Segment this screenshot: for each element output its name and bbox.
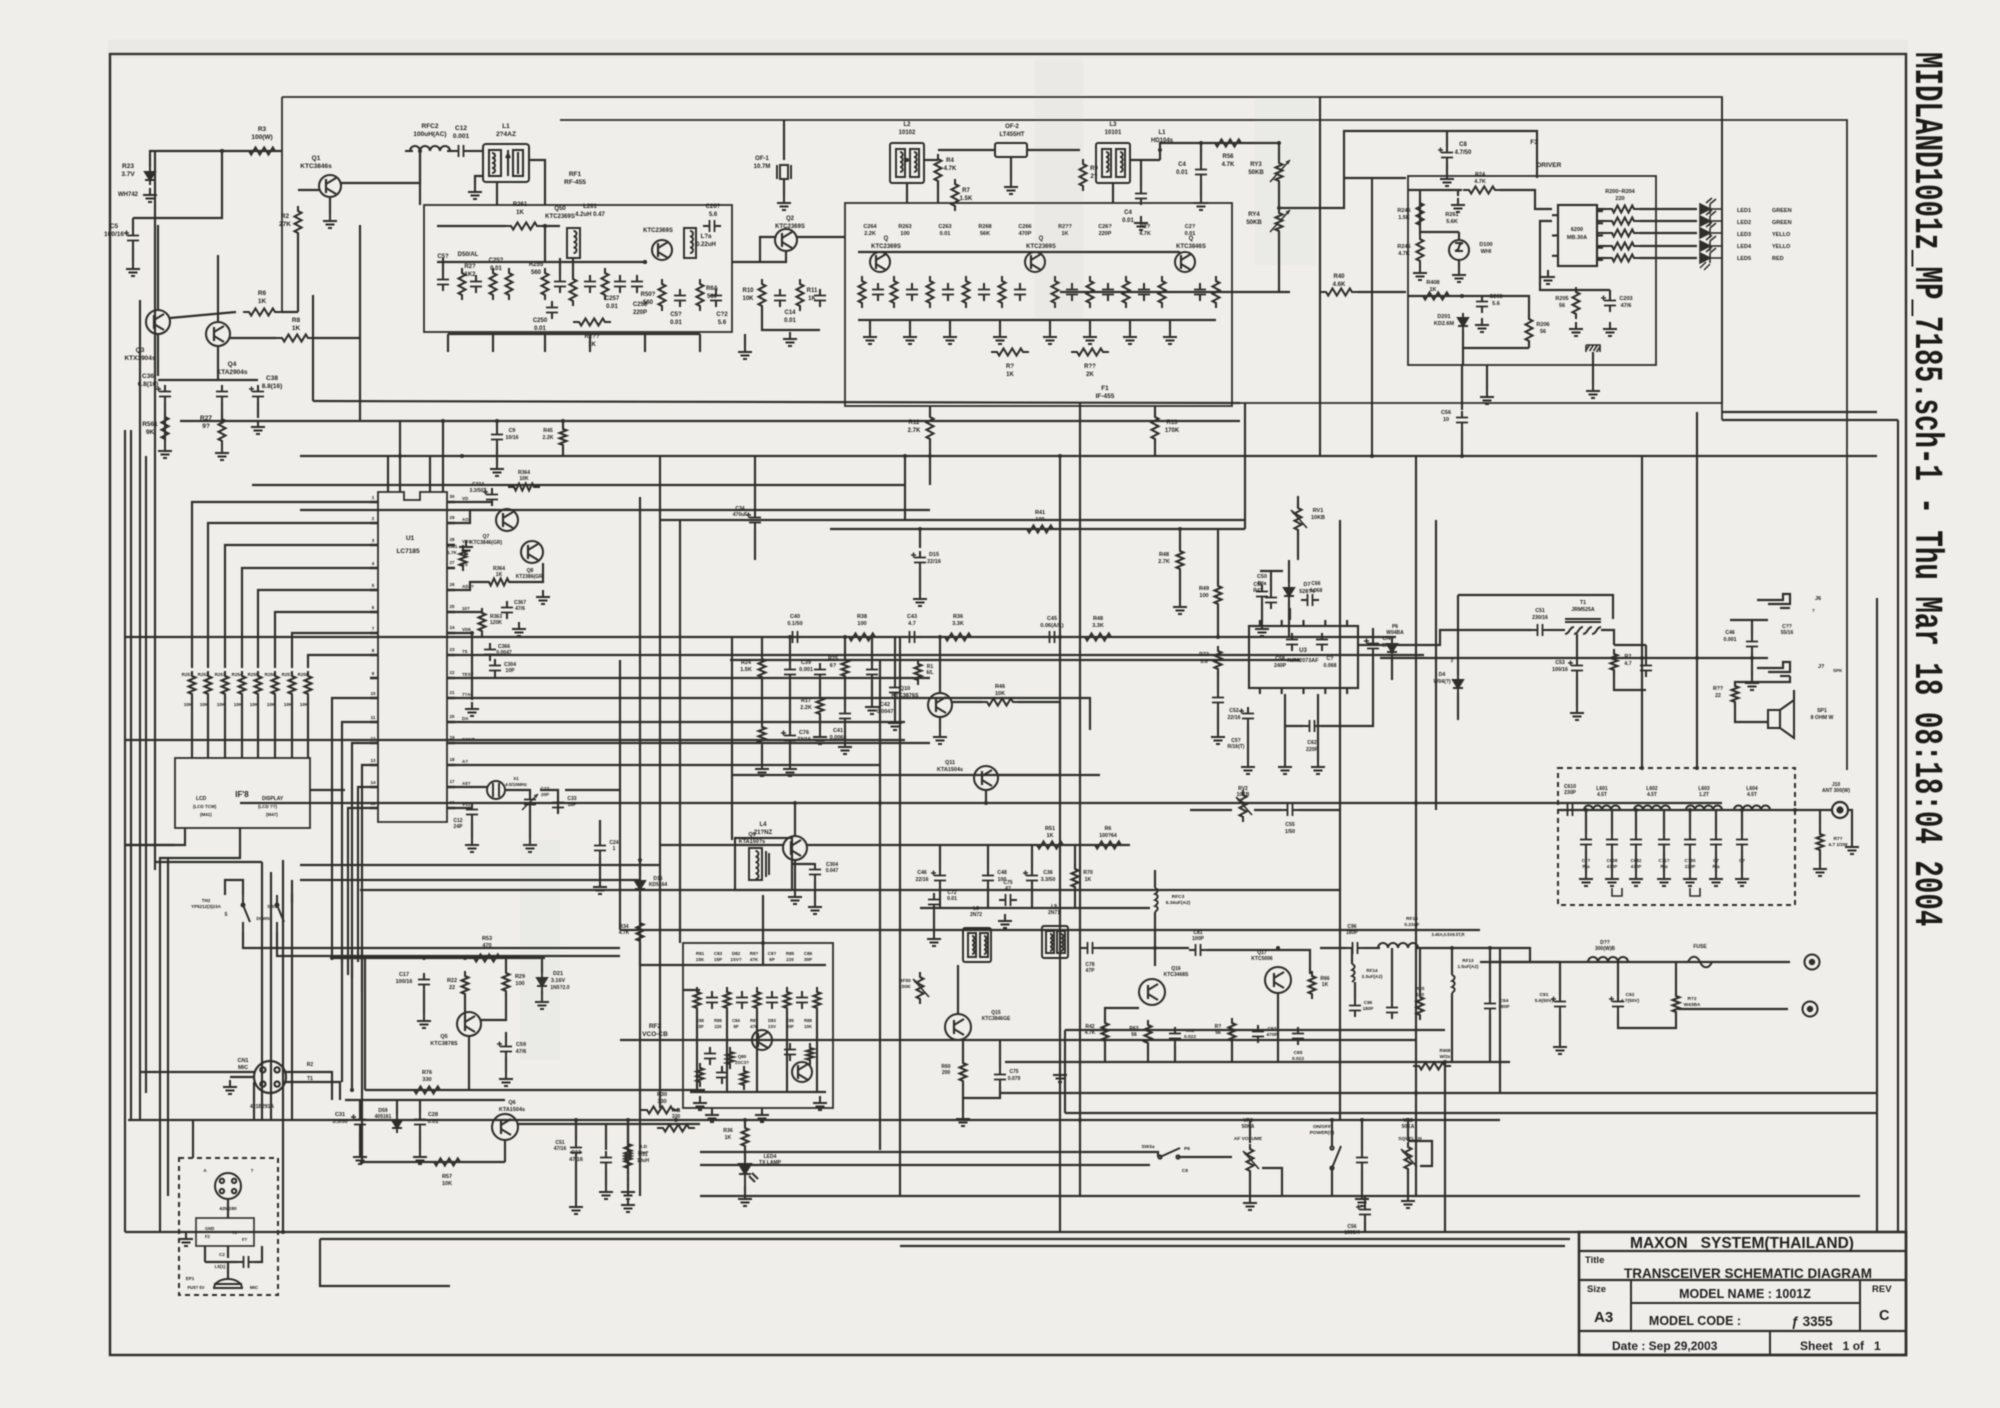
transistor Q6 <box>492 1114 518 1140</box>
ground C31 <box>353 1150 367 1164</box>
svg-text:Q9: Q9 <box>748 832 755 838</box>
svg-text:10e?: 10e? <box>638 1150 649 1156</box>
svg-text:KTA1504s: KTA1504s <box>499 1107 525 1113</box>
wire <box>1601 630 1614 645</box>
capacitor C97 <box>1386 1001 1398 1019</box>
label R45 value <box>543 428 554 441</box>
resistor F1 <box>891 276 898 308</box>
svg-text:0.01: 0.01 <box>1185 231 1196 237</box>
wire <box>1452 295 1482 297</box>
potentiometer RF50 <box>917 972 924 1004</box>
wire v930b <box>929 456 931 485</box>
wire <box>205 1261 237 1263</box>
wire <box>1099 947 1189 949</box>
wire C5 top <box>132 218 134 229</box>
capacitor C255 <box>614 275 626 293</box>
wire switch top <box>225 880 243 895</box>
svg-text:22/16: 22/16 <box>1228 715 1241 721</box>
svg-text:C40: C40 <box>790 614 800 620</box>
diode D4 <box>1453 675 1463 693</box>
wire <box>541 958 543 973</box>
ground F3 a <box>1451 198 1465 212</box>
label label <box>1176 162 1188 176</box>
svg-text:C42: C42 <box>880 702 890 708</box>
label label <box>633 302 648 316</box>
capacitor C56 <box>1456 411 1468 429</box>
ground vco b <box>755 1108 769 1122</box>
wire <box>1154 406 1156 417</box>
wire <box>455 633 472 700</box>
svg-text:R27: R27 <box>200 415 212 422</box>
junction <box>1634 808 1638 812</box>
wire <box>1089 320 1091 330</box>
label C56 value <box>1441 410 1451 423</box>
svg-text:220: 220 <box>1615 196 1624 202</box>
label D16 value <box>649 876 668 888</box>
resistor VCO <box>694 987 701 1013</box>
svg-text:0.01: 0.01 <box>940 231 951 237</box>
ground tx rail <box>1053 1068 1067 1082</box>
wire <box>1018 701 1060 703</box>
wire <box>1416 948 1530 962</box>
wire ladder down <box>191 696 193 758</box>
svg-text:4.7K: 4.7K <box>944 166 957 172</box>
label vco part label <box>750 951 759 962</box>
wire x262 <box>261 862 263 1120</box>
label L605 value <box>1595 940 1615 952</box>
svg-text:(M41): (M41) <box>200 812 212 817</box>
wire to ANT <box>1795 809 1832 811</box>
transistor IF <box>1175 252 1195 272</box>
svg-text:0.068: 0.068 <box>1324 663 1337 669</box>
svg-text:30P: 30P <box>786 1024 794 1029</box>
lpf hook ground2 <box>1690 888 1700 896</box>
wire U1 top3 <box>429 456 431 492</box>
svg-text:Q11: Q11 <box>945 760 955 766</box>
label X1 value <box>505 776 528 787</box>
wire <box>949 320 951 330</box>
resistor R56 <box>1209 140 1247 147</box>
svg-text:R70: R70 <box>1083 870 1093 876</box>
wire v1320 <box>1319 97 1321 456</box>
svg-text:GND: GND <box>205 1226 214 1231</box>
junction <box>1277 141 1281 145</box>
wire <box>437 225 506 227</box>
wire <box>1585 810 1587 833</box>
transistor Q2 <box>775 229 797 251</box>
label Q9 label <box>739 832 766 845</box>
U1 right pin 24 <box>447 677 455 680</box>
label R246 value <box>1397 208 1410 221</box>
label C38 value <box>262 375 283 390</box>
wire <box>396 1100 398 1115</box>
svg-text:47/6: 47/6 <box>1621 303 1632 309</box>
svg-text:IF'8: IF'8 <box>235 790 249 799</box>
label C91 value <box>1535 992 1554 1004</box>
svg-text:3: 3 <box>372 538 375 543</box>
svg-text:Q10: Q10 <box>900 686 910 692</box>
label CN1 label <box>237 1058 248 1071</box>
ground C52 <box>1241 760 1255 774</box>
wire <box>894 637 896 681</box>
label R53 value <box>482 936 492 949</box>
svg-text:C36: C36 <box>1043 870 1053 876</box>
resistor R253 <box>222 671 229 699</box>
resistor VCO2 <box>697 1063 704 1087</box>
ground F1 <box>1043 330 1057 344</box>
wire <box>1635 851 1637 872</box>
wire ladder down <box>257 696 259 758</box>
label C81 value <box>1192 930 1204 942</box>
svg-text:KTC3468S: KTC3468S <box>1164 972 1189 978</box>
svg-text:22/16: 22/16 <box>916 877 929 883</box>
wire <box>1200 181 1202 196</box>
label label <box>1006 364 1015 378</box>
label R52 value <box>1099 826 1117 839</box>
label R366 value <box>493 566 505 578</box>
svg-text:R408: R408 <box>1426 280 1439 286</box>
svg-text:L261: L261 <box>583 204 597 210</box>
wire <box>1297 530 1299 560</box>
label L603 value <box>1698 786 1710 798</box>
wire <box>1618 1013 1676 1028</box>
wire <box>255 1246 262 1262</box>
resistor R255 <box>542 268 549 300</box>
transistor Q80 <box>752 1030 772 1050</box>
jack J7 ext spk <box>1757 662 1790 676</box>
wire x1 link <box>565 789 620 791</box>
svg-text:10P: 10P <box>506 668 516 674</box>
junction <box>984 801 988 805</box>
svg-text:C2?: C2? <box>1185 224 1196 230</box>
wire <box>844 637 846 659</box>
capacitor C47 <box>866 663 878 681</box>
svg-text:5.6: 5.6 <box>718 320 727 326</box>
svg-text:R48: R48 <box>1093 616 1103 622</box>
resistor R38 <box>843 634 881 641</box>
svg-text:L1: L1 <box>502 123 510 130</box>
wire <box>1451 948 1453 975</box>
wire <box>1074 845 1076 869</box>
U1 right pin 28 <box>447 764 455 767</box>
svg-text:1SV: 1SV <box>768 1024 776 1029</box>
svg-text:0.01: 0.01 <box>428 1119 439 1125</box>
label Q50 label <box>545 206 575 220</box>
resistor R22 <box>462 971 469 999</box>
wire <box>909 320 911 330</box>
resistor R30 <box>641 1107 679 1114</box>
wire y401 long <box>313 401 1240 403</box>
label C76 value <box>797 730 811 743</box>
svg-text:C91: C91 <box>1540 992 1549 998</box>
wire <box>1597 232 1606 234</box>
capacitor C41 <box>839 707 851 725</box>
label R38 value <box>857 614 867 627</box>
ground C41 <box>838 740 852 754</box>
label label <box>1151 130 1174 144</box>
svg-text:P6: P6 <box>1184 1146 1190 1152</box>
wire v1642 <box>1641 456 1643 768</box>
resistor R42b <box>1102 1018 1109 1046</box>
svg-text:YELLO: YELLO <box>1772 244 1791 250</box>
label label <box>706 286 719 300</box>
svg-text:R24: R24 <box>1475 172 1486 178</box>
svg-text:GREEN: GREEN <box>1772 220 1792 226</box>
wire <box>1169 320 1171 330</box>
svg-text:1K: 1K <box>1429 287 1436 293</box>
label R4 value <box>944 158 957 172</box>
wire <box>1331 1120 1333 1146</box>
label C260 value <box>706 204 721 218</box>
capacitor C57 <box>1265 591 1277 609</box>
ground C53 <box>1570 706 1584 720</box>
wire power to F3 <box>1279 131 1537 208</box>
svg-text:F3: F3 <box>1530 139 1538 146</box>
ground F3 b <box>1413 266 1427 280</box>
svg-text:21: 21 <box>449 690 455 695</box>
U1 left pin 3 <box>370 544 378 547</box>
jack J6 <box>1757 594 1790 608</box>
resistor R51b <box>625 1139 632 1165</box>
wire <box>496 446 498 462</box>
svg-text:10K: 10K <box>995 691 1005 697</box>
svg-text:24P: 24P <box>454 824 464 830</box>
wire <box>1321 680 1373 726</box>
svg-text:C46: C46 <box>917 870 927 876</box>
lamp D100 <box>1449 240 1469 260</box>
wire y948 ext <box>370 947 620 949</box>
label R30 value <box>657 1092 667 1105</box>
svg-text:R45: R45 <box>543 428 553 434</box>
svg-text:NJM2073AF: NJM2073AF <box>1287 658 1319 664</box>
resistor R24 <box>759 654 766 682</box>
wire y845 left <box>660 844 783 846</box>
svg-text:C250: C250 <box>533 318 548 324</box>
wire <box>1640 257 1697 259</box>
wire L4 to VCO <box>762 895 764 943</box>
capacitor C52 <box>1239 707 1254 725</box>
label C75b value <box>1008 1069 1021 1082</box>
wire <box>627 1120 629 1143</box>
svg-text:R87: R87 <box>750 1018 758 1023</box>
svg-text:F?: F? <box>242 1237 248 1242</box>
wire Q4 up2 <box>217 255 219 285</box>
junction <box>1178 527 1182 531</box>
svg-text:0.068: 0.068 <box>1310 588 1323 594</box>
wire <box>1446 164 1448 172</box>
svg-text:RF2: RF2 <box>649 1023 662 1030</box>
svg-text:R24: R24 <box>741 660 752 666</box>
wire bus pin722 <box>455 721 905 723</box>
ground pin stub <box>459 540 473 554</box>
U1 left pin 2 <box>370 522 378 525</box>
wire <box>1446 131 1448 146</box>
ground C4b <box>1194 196 1208 210</box>
capacitor C50 <box>1256 585 1268 603</box>
potentiometer VR2 volume <box>1247 1144 1254 1176</box>
label LED4 label <box>759 1154 782 1166</box>
svg-text:R85: R85 <box>786 951 795 956</box>
wire <box>627 1124 629 1151</box>
capacitor C81 <box>1189 944 1207 956</box>
label C64b value <box>1498 998 1510 1010</box>
svg-text:27K: 27K <box>279 221 291 228</box>
module RF1 box <box>424 205 732 332</box>
label C334 value <box>470 482 487 494</box>
svg-text:1.7K: 1.7K <box>447 550 457 555</box>
junction <box>761 941 765 945</box>
wire <box>1080 1164 1150 1166</box>
svg-text:R7: R7 <box>962 188 970 194</box>
label C304b value <box>826 862 839 874</box>
label vco label2 <box>768 1018 776 1029</box>
U1 right pin 29 <box>447 786 455 789</box>
label Q51 label <box>643 228 673 234</box>
wire Q1 base <box>298 189 319 191</box>
ground mixer <box>783 332 797 346</box>
wire <box>562 448 564 455</box>
ground R205 <box>1569 322 1583 336</box>
label C62 value <box>1306 740 1319 753</box>
capacitor C8 <box>1438 146 1453 164</box>
svg-text:10: 10 <box>1443 417 1449 423</box>
junction <box>460 454 464 458</box>
wire U1 pin4 <box>242 568 370 668</box>
svg-text:22: 22 <box>449 985 455 991</box>
svg-text:REV: REV <box>1872 1284 1892 1295</box>
wire CN1 down <box>253 1082 255 1120</box>
capacitor C34 <box>746 511 761 529</box>
svg-text:OF-1: OF-1 <box>755 156 769 162</box>
zener R23 <box>145 167 155 185</box>
svg-text:R261: R261 <box>1445 212 1458 218</box>
svg-text:R6: R6 <box>1105 826 1112 832</box>
wire R46 corner <box>1059 702 1061 775</box>
ground F1 <box>1163 330 1177 344</box>
capacitor C? <box>1736 833 1748 851</box>
label Q5 label <box>430 1034 458 1047</box>
thermistor RY4 <box>1276 208 1283 236</box>
U1 left pin 10 <box>370 697 378 700</box>
junction <box>918 527 922 531</box>
resistor VCO <box>814 987 821 1013</box>
capacitor C253 <box>554 275 566 293</box>
label C96b value <box>1363 1000 1374 1011</box>
inductor L603 <box>1686 806 1722 811</box>
label R48 value <box>1092 616 1104 629</box>
resistor VCO <box>754 987 761 1013</box>
svg-text:Size: Size <box>1587 1284 1606 1295</box>
svg-text:R46: R46 <box>995 684 1005 690</box>
ground C51b <box>569 1200 583 1214</box>
ground R17 <box>813 730 827 744</box>
svg-text:C41: C41 <box>833 728 843 734</box>
label D201 value <box>1434 314 1455 327</box>
wire ladder down <box>207 696 209 758</box>
label Q2 label <box>775 216 805 230</box>
label R29 value <box>515 974 525 987</box>
label C9 value <box>506 428 519 441</box>
wire display out1 <box>125 828 185 845</box>
label R2 value <box>279 213 291 228</box>
wire <box>1461 429 1463 456</box>
svg-text:VS2: VS2 <box>462 802 471 807</box>
ground Q1 <box>323 214 337 228</box>
junction <box>1584 808 1588 812</box>
svg-text:D82: D82 <box>732 951 741 956</box>
svg-text:VCO-CB: VCO-CB <box>642 1031 668 1038</box>
svg-text:8.8(16): 8.8(16) <box>262 383 283 390</box>
svg-text:0.06(A/L): 0.06(A/L) <box>1040 623 1063 629</box>
ground C50 <box>1255 622 1269 636</box>
junction <box>793 801 797 805</box>
svg-text:F2: F2 <box>205 1234 211 1239</box>
wire <box>1364 1221 1366 1232</box>
wire <box>1361 1169 1363 1192</box>
resistor VCO <box>784 987 791 1013</box>
wire <box>999 320 1001 330</box>
svg-text:10KB: 10KB <box>1311 515 1325 521</box>
svg-text:VD: VD <box>462 496 469 501</box>
svg-text:2N71: 2N71 <box>1048 910 1060 916</box>
svg-text:3.3K: 3.3K <box>952 621 964 627</box>
svg-text:DRIVER: DRIVER <box>1537 162 1562 169</box>
wire <box>464 996 466 1018</box>
U1 left pin 14 <box>370 786 378 789</box>
capacitor C51 <box>1531 624 1549 636</box>
svg-text:D83: D83 <box>768 1018 776 1023</box>
wire power neg rail <box>1678 1008 1788 1010</box>
label RY4 value <box>1246 212 1262 226</box>
svg-text:(LCD TCM): (LCD TCM) <box>193 804 217 809</box>
svg-text:100(W): 100(W) <box>251 134 272 141</box>
label C31 value <box>332 1112 347 1125</box>
svg-text:1K: 1K <box>725 1135 732 1141</box>
svg-text:C50: C50 <box>1257 574 1267 580</box>
svg-text:A?: A? <box>462 759 468 764</box>
wire U1 pin3 <box>225 545 370 668</box>
transistor Q10 <box>928 693 952 717</box>
svg-text:A3: A3 <box>1594 1309 1613 1326</box>
transistor Q17 <box>1265 967 1291 993</box>
inductor L601 <box>1584 806 1620 811</box>
label Q16 label <box>1164 966 1189 978</box>
svg-text:1.2T: 1.2T <box>1699 792 1709 798</box>
wire trunk h420 <box>1722 419 1898 421</box>
wire <box>1741 810 1743 833</box>
svg-text:PU5? 5V: PU5? 5V <box>188 1285 205 1290</box>
label R25 value <box>828 656 838 669</box>
svg-text:Q1: Q1 <box>312 155 321 162</box>
resistor R260 <box>573 319 611 326</box>
ground RF1 out <box>738 345 752 359</box>
resistor R40 <box>1320 289 1358 296</box>
svg-text:24: 24 <box>449 625 455 630</box>
wire rail y958 <box>340 957 545 959</box>
wire <box>257 403 259 418</box>
svg-text:2.7K: 2.7K <box>1158 559 1170 565</box>
label C202 value <box>1489 294 1502 307</box>
resistor R251 <box>189 671 196 699</box>
inductor RF15 <box>1378 943 1418 948</box>
svg-text:Date : Sep 29,2003: Date : Sep 29,2003 <box>1612 1339 1718 1353</box>
capacitor C14 <box>774 289 786 307</box>
wire <box>1284 694 1286 760</box>
wire x292 <box>291 880 293 1120</box>
label T1 value <box>1571 600 1595 613</box>
ground F1 <box>1083 330 1097 344</box>
wire <box>1190 809 1232 811</box>
